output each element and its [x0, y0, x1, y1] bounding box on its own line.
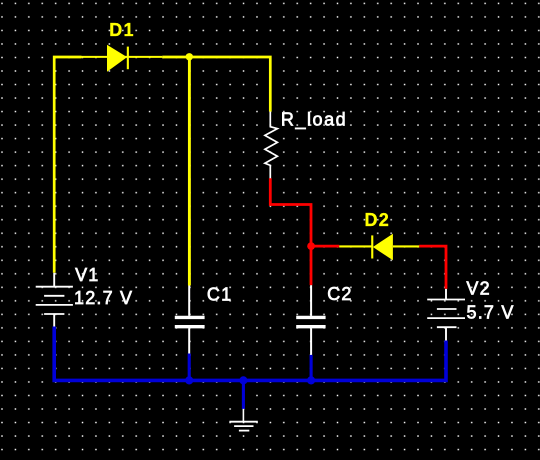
svg-text:C2: C2 — [327, 284, 352, 304]
label C2 — [327, 284, 352, 304]
wire blue branch: C2 bottom to bus — [310, 355, 313, 381]
capacitor C1 — [175, 286, 205, 354]
svg-text:D1: D1 — [109, 20, 134, 40]
battery V1 — [36, 273, 73, 327]
svg-text:V1: V1 — [75, 265, 99, 285]
wire red net: R_load bottom to node — [270, 178, 311, 246]
junction dot (blue) C2-bus — [307, 376, 315, 384]
label C1 — [207, 284, 232, 304]
label V1 — [75, 265, 99, 285]
junction dot (blue) C1-bus — [185, 376, 193, 384]
wire red branch: node down to C2 top — [310, 246, 313, 285]
label V2 — [466, 279, 490, 299]
capacitor C2 — [296, 285, 325, 355]
wire blue branch: C1 bottom to bus — [188, 354, 191, 381]
wire blue branch: bus down to ground — [242, 380, 245, 409]
diode D1 — [107, 45, 129, 72]
wire yellow branch: junction down to C1 top — [188, 57, 191, 286]
wire red branch: node to D2 anode lead — [311, 245, 339, 248]
junction dot (red) node — [307, 242, 315, 250]
svg-text:V2: V2 — [466, 279, 490, 299]
resistor R_load — [265, 112, 278, 179]
svg-text:R_load: R_load — [281, 109, 347, 130]
label D1 — [109, 20, 134, 40]
wire red: D2 cathode lead to V2+ — [419, 246, 446, 289]
ground — [229, 409, 257, 431]
svg-text:5.7 V: 5.7 V — [467, 302, 515, 322]
wire blue net: bottom bus V1- to V2- — [54, 327, 446, 381]
diode D2 — [339, 234, 419, 261]
svg-text:12.7 V: 12.7 V — [74, 288, 133, 308]
junction dot (blue) ground-bus — [239, 376, 247, 384]
battery V2 — [427, 289, 465, 341]
value label 5.7 V — [467, 302, 515, 322]
junction dot (yellow) top node — [186, 53, 193, 60]
value label 12.7 V — [74, 288, 133, 308]
svg-text:C1: C1 — [207, 284, 232, 304]
svg-text:D2: D2 — [365, 210, 390, 230]
wire yellow net: V1+ up, top run, down to R_load — [54, 57, 270, 273]
label D2 — [365, 210, 390, 230]
label R_load — [281, 109, 347, 130]
